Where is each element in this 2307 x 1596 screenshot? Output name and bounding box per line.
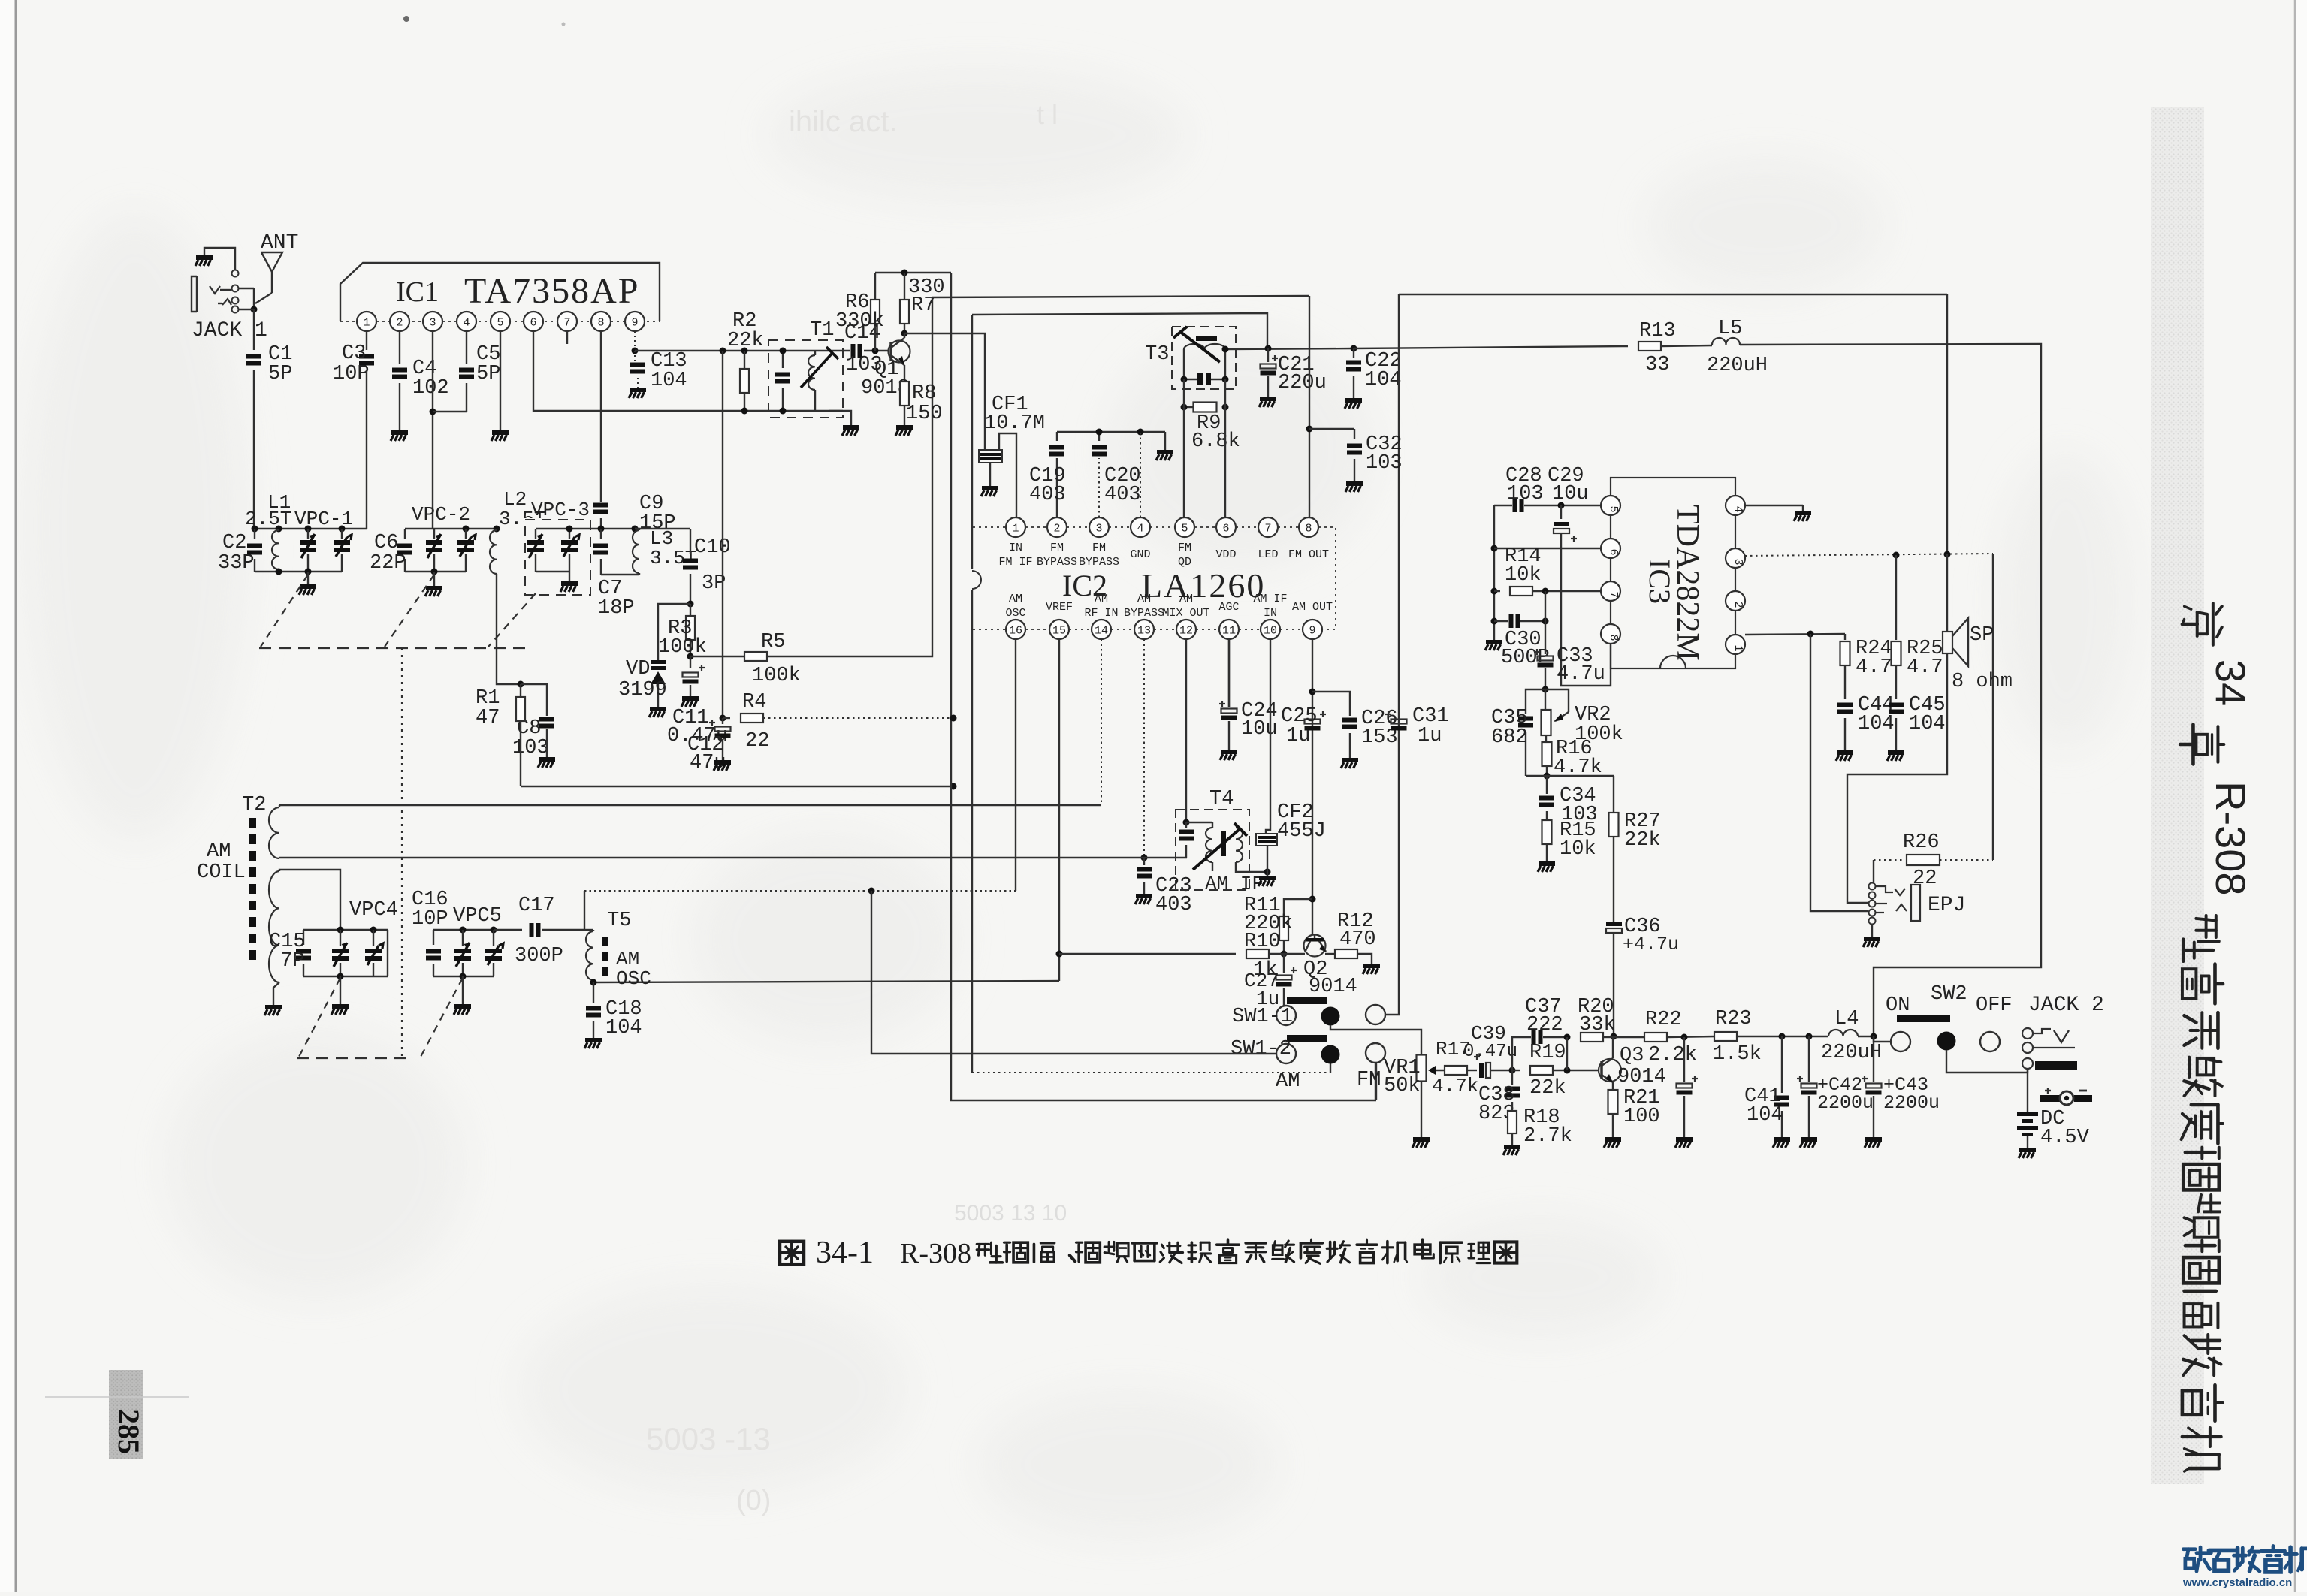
svg-text:VD: VD bbox=[626, 658, 650, 680]
wire junction to VD branch bbox=[658, 604, 690, 660]
svg-text:10.7M: 10.7M bbox=[984, 412, 1045, 435]
IC3 pin 2 bbox=[1726, 591, 1745, 611]
svg-text:7: 7 bbox=[1264, 523, 1271, 536]
svg-text:9: 9 bbox=[1309, 625, 1315, 638]
capacitor C44 104 bbox=[1837, 703, 1853, 707]
resistor R2 bbox=[744, 351, 745, 370]
wire T2 secondary line bbox=[279, 857, 1187, 858]
IC2 pin 9 bbox=[1303, 620, 1322, 639]
capacitor C2 bbox=[254, 529, 255, 539]
ground CF2 bbox=[1259, 876, 1276, 880]
svg-text:5: 5 bbox=[497, 317, 503, 330]
svg-text:t l: t l bbox=[1037, 99, 1058, 130]
jack1 contact V bbox=[210, 286, 220, 294]
IC1 pin 8 bbox=[591, 312, 611, 331]
wire C26 stub bbox=[1312, 692, 1350, 716]
svg-text:C6: C6 bbox=[374, 532, 398, 554]
capacitor C23 403 bbox=[1143, 858, 1145, 865]
wire L2 bottom to R1 bbox=[497, 574, 521, 684]
wire IC2 pin12 riser bbox=[1185, 639, 1187, 822]
wire IC1 pin4 to C5 bbox=[466, 331, 467, 364]
capacitor C22 104 bbox=[1353, 348, 1354, 358]
capacitor C31 1u bbox=[1391, 720, 1407, 724]
node VPC-3 rails bbox=[536, 528, 635, 529]
svg-text:22k: 22k bbox=[727, 330, 764, 352]
transistor Q3 9014 bbox=[1599, 1059, 1621, 1082]
node R6 R7 top rail bbox=[875, 272, 951, 273]
svg-text:4.7k: 4.7k bbox=[1432, 1075, 1478, 1097]
wire C35 stub bbox=[1526, 689, 1545, 714]
svg-text:SW1-2: SW1-2 bbox=[1231, 1038, 1291, 1060]
svg-text:6.8k: 6.8k bbox=[1191, 430, 1240, 453]
svg-text:VPC-1: VPC-1 bbox=[294, 508, 353, 530]
wire C17 to T5 and AM OSC line bbox=[542, 891, 584, 930]
IC1 pin 1 bbox=[357, 312, 376, 331]
svg-text:FM: FM bbox=[1357, 1069, 1381, 1091]
svg-text:7P: 7P bbox=[280, 950, 304, 973]
transistor Q1 9018 bbox=[889, 341, 910, 363]
capacitor C32 103 bbox=[1354, 429, 1355, 439]
capacitor C7 bbox=[600, 529, 602, 539]
ground VD bbox=[650, 707, 666, 711]
svg-text:5: 5 bbox=[1181, 523, 1188, 536]
node VPC4 bottom rail bbox=[303, 976, 388, 977]
capacitor C43 2200u bbox=[1873, 1036, 1874, 1082]
svg-text:R-308: R-308 bbox=[900, 1238, 971, 1269]
IC2 pin 11 bbox=[1219, 620, 1239, 639]
svg-text:4.7: 4.7 bbox=[1907, 656, 1943, 679]
svg-text:14: 14 bbox=[1095, 625, 1108, 638]
capacitor C18 104 bbox=[593, 982, 594, 1003]
ground R18 bbox=[1504, 1145, 1520, 1149]
svg-text:50k: 50k bbox=[1384, 1075, 1421, 1097]
svg-text:AM: AM bbox=[1137, 593, 1151, 605]
IC2 pin 3 bbox=[1089, 517, 1109, 537]
svg-text:220u: 220u bbox=[1278, 372, 1327, 394]
svg-text:3: 3 bbox=[1095, 523, 1102, 536]
capacitor C9 bbox=[593, 503, 608, 508]
svg-text:TA7358AP: TA7358AP bbox=[464, 271, 640, 311]
capacitor C16 10P bbox=[433, 930, 434, 945]
svg-text:2.5T: 2.5T bbox=[245, 508, 291, 530]
wire jack to C1 and L1 tank bbox=[253, 309, 255, 350]
ground jack1 bbox=[196, 255, 213, 260]
node VPC-2 bottom rail bbox=[405, 571, 466, 572]
capacitor C4 bbox=[392, 368, 407, 373]
svg-text:AGC: AGC bbox=[1218, 601, 1239, 614]
svg-text:8: 8 bbox=[1305, 523, 1312, 536]
svg-text:6: 6 bbox=[530, 317, 536, 330]
page left margin edge bbox=[0, 0, 17, 1592]
wire pin3 riser down to R26 bbox=[1992, 554, 1994, 860]
inductor L5 220uH bbox=[1712, 338, 1740, 345]
IC2 LA1260 body outline bbox=[973, 526, 1006, 528]
resistor R21 100 bbox=[1608, 1090, 1618, 1114]
IC2 pin 2 bbox=[1047, 517, 1067, 537]
resistor R12 470 bbox=[1335, 949, 1357, 958]
svg-text:TDA2822M: TDA2822M bbox=[1670, 505, 1705, 661]
T4 tuning arrow bbox=[1193, 829, 1240, 870]
IC2 pin 16 bbox=[1006, 620, 1025, 639]
resistor R6 bbox=[874, 273, 876, 300]
IC2 pin 12 bbox=[1176, 620, 1196, 639]
transformer T3 shield box bbox=[1172, 327, 1236, 389]
svg-text:BYPASS: BYPASS bbox=[1124, 607, 1164, 620]
ground C13 bbox=[630, 388, 646, 392]
svg-text:1u: 1u bbox=[1286, 725, 1310, 747]
wire IC2 pin3 riser bbox=[1098, 458, 1100, 517]
svg-text:AM IF: AM IF bbox=[1205, 873, 1264, 895]
wire IC2 pin4 riser dotted bbox=[1140, 432, 1141, 517]
wire VPC-2 gnd stub bbox=[433, 572, 435, 586]
svg-text:VREF: VREF bbox=[1046, 601, 1073, 614]
capacitor T1 internal bbox=[782, 351, 784, 368]
capacitor C13 bbox=[634, 351, 636, 361]
capacitor C15 7P bbox=[303, 930, 304, 945]
svg-text:7: 7 bbox=[563, 317, 570, 330]
capacitor C17 300P bbox=[530, 923, 534, 937]
wire T2 secondary bottom to ground bbox=[273, 982, 279, 1005]
switch SW2 bbox=[1897, 1015, 1950, 1022]
caption 图 34-1 R-308 schematic title bbox=[780, 1242, 804, 1264]
capacitor C26 153 bbox=[1342, 718, 1357, 723]
svg-text:5003 13 10: 5003 13 10 bbox=[954, 1201, 1067, 1226]
capacitor C27 1u bbox=[1283, 954, 1285, 973]
switch SW1-1 bbox=[1287, 997, 1327, 1004]
svg-text:JACK 2: JACK 2 bbox=[2028, 994, 2104, 1017]
resistor R20 33k bbox=[1581, 1033, 1603, 1042]
wire C9 to VPC-3 rail bbox=[600, 518, 602, 529]
resistor R15 10k bbox=[1542, 820, 1552, 844]
node L1 tank top rail bbox=[255, 528, 367, 529]
wire CF2 gnd stub bbox=[1267, 872, 1268, 876]
wire T3 right to IC2 pin6 bbox=[1224, 379, 1226, 517]
wire T3 left to IC2 pin5 bbox=[1183, 379, 1185, 517]
svg-text:R23: R23 bbox=[1715, 1008, 1752, 1030]
svg-text:18P: 18P bbox=[598, 597, 635, 620]
watermark 矿石收音机 crystalradio bbox=[2183, 1547, 2211, 1571]
capacitor C21 220u bbox=[1267, 348, 1269, 362]
svg-text:C2: C2 bbox=[222, 532, 246, 554]
resistor R3 bbox=[690, 604, 691, 616]
svg-text:R5: R5 bbox=[761, 631, 785, 653]
svg-text:ANT: ANT bbox=[261, 231, 298, 255]
wire IC1 pin6 to T1 bottom rail bbox=[533, 331, 843, 411]
ground C42 bbox=[1801, 1137, 1817, 1142]
capacitor C3 bbox=[359, 354, 374, 359]
speaker SP 8ohm bbox=[1946, 554, 1948, 632]
IC2 pin 4 bbox=[1131, 517, 1150, 537]
svg-text:EPJ: EPJ bbox=[1928, 894, 1965, 917]
svg-text:103: 103 bbox=[512, 737, 549, 759]
IC2 pin 8 bbox=[1299, 517, 1318, 537]
gang coupling dashes AM bbox=[297, 1057, 408, 1059]
wire IC1 pin1 to C3 bbox=[366, 331, 367, 350]
T3 tuning arrow bbox=[1179, 331, 1220, 362]
transformer T1 shield box bbox=[768, 340, 843, 418]
inductor T5 AM OSC bbox=[586, 931, 593, 980]
shield box VPC-3 bbox=[525, 520, 590, 595]
svg-text:103: 103 bbox=[1507, 483, 1544, 505]
svg-text:22: 22 bbox=[1913, 867, 1937, 890]
svg-text:22P: 22P bbox=[370, 552, 406, 575]
wire x1989 column bbox=[1493, 505, 1495, 640]
wire T5 feedback line bbox=[593, 981, 1059, 982]
capacitor C14 bbox=[851, 344, 856, 358]
svg-text:11: 11 bbox=[1222, 625, 1236, 638]
ground IC3 pin4 bbox=[1795, 511, 1811, 515]
wire rail to C10 bbox=[635, 528, 690, 529]
svg-text:L5: L5 bbox=[1718, 318, 1742, 340]
capacitor C6 bbox=[404, 529, 406, 539]
ground CF1 bbox=[982, 486, 998, 490]
svg-text:5003 -13: 5003 -13 bbox=[646, 1421, 771, 1456]
trimmer VPC-1a bbox=[307, 529, 309, 539]
T5 core bbox=[602, 937, 608, 946]
wire pin4 stub to ground bbox=[1745, 505, 1803, 506]
page right margin edge bbox=[2295, 0, 2307, 1592]
gang coupling vertical bbox=[401, 648, 403, 1058]
wire IC1 pin9 to FM line bbox=[634, 331, 636, 351]
svg-text:104: 104 bbox=[651, 370, 687, 392]
wire bus x960 riser bbox=[722, 351, 723, 718]
svg-text:34: 34 bbox=[2207, 659, 2254, 706]
svg-text:VPC-2: VPC-2 bbox=[412, 503, 470, 526]
IC1 pin 7 bbox=[557, 312, 577, 331]
wire JACK2 to battery bbox=[2027, 1069, 2028, 1112]
ground x1989 bbox=[1486, 640, 1502, 644]
IC2 left edge notch bbox=[972, 571, 981, 589]
svg-text:AM IF: AM IF bbox=[1253, 593, 1287, 605]
capacitor C29 10u bbox=[1560, 505, 1562, 519]
capacitor C33 4.7u bbox=[1538, 656, 1554, 661]
ground C40 bbox=[1676, 1137, 1693, 1142]
wire R20 to R22 bbox=[1614, 1036, 1644, 1038]
node VPC-2 tank top rail bbox=[405, 528, 497, 529]
svg-text:455J: 455J bbox=[1277, 820, 1326, 843]
capacitor T4 internal bbox=[1185, 822, 1187, 828]
wire C30 row bbox=[1494, 620, 1508, 622]
IC2 pin 7 bbox=[1258, 517, 1278, 537]
inductor T1 winding bbox=[808, 355, 815, 390]
capacitor C20 403 bbox=[1092, 445, 1107, 450]
node bypass rail bbox=[1057, 431, 1165, 433]
svg-text:FM IF: FM IF bbox=[998, 556, 1032, 569]
svg-text:5: 5 bbox=[1607, 505, 1620, 512]
transistor Q2 9014 bbox=[1304, 935, 1326, 957]
svg-text:R4: R4 bbox=[742, 691, 766, 714]
wire R4 dotted to bus bbox=[763, 717, 953, 719]
wire IC1 pin2 to C4 bbox=[399, 331, 400, 364]
svg-text:AM: AM bbox=[1276, 1070, 1300, 1093]
svg-text:IN: IN bbox=[1009, 542, 1022, 554]
svg-text:OSC: OSC bbox=[616, 967, 651, 990]
svg-text:2.2k: 2.2k bbox=[1648, 1044, 1697, 1067]
wire pin6 row bbox=[1494, 548, 1601, 549]
IC1 pin 6 bbox=[524, 312, 543, 331]
svg-text:103: 103 bbox=[1366, 452, 1403, 475]
svg-text:www.crystalradio.cn: www.crystalradio.cn bbox=[2182, 1576, 2292, 1589]
diode VD 3199 bbox=[651, 660, 666, 664]
resistor R10 1k bbox=[1059, 953, 1236, 955]
wire EPJ sleeve to ground bbox=[1871, 925, 1873, 937]
svg-text:T2: T2 bbox=[242, 794, 266, 816]
trimmer VPC5a bbox=[462, 930, 464, 946]
wire IC2 pin2 riser bbox=[1056, 458, 1058, 517]
ground EPJ bbox=[1864, 937, 1880, 941]
svg-text:COIL: COIL bbox=[197, 861, 246, 884]
svg-text:330k: 330k bbox=[835, 310, 884, 333]
inductor L4 220uH bbox=[1806, 1033, 1813, 1040]
trimmer VPC-3b bbox=[569, 529, 570, 539]
svg-text:SP: SP bbox=[1970, 624, 1994, 647]
resistor R1 bbox=[520, 684, 521, 697]
wire C37 branch bbox=[1512, 1037, 1531, 1070]
svg-text:AM: AM bbox=[1009, 593, 1022, 605]
wire VPC4 gnd stub bbox=[340, 976, 341, 1004]
scan artifact line left bbox=[45, 1396, 189, 1398]
IC2 pin 6 bbox=[1216, 517, 1236, 537]
trimmer VPC5b bbox=[493, 930, 494, 946]
ground VPC-1 bbox=[300, 584, 316, 589]
svg-text:100k: 100k bbox=[752, 665, 801, 687]
svg-text:104: 104 bbox=[1365, 369, 1402, 391]
ground C26 bbox=[1342, 758, 1358, 762]
ground C8 bbox=[539, 757, 555, 762]
svg-text:+4.7u: +4.7u bbox=[1623, 934, 1679, 955]
ground C45 bbox=[1888, 750, 1904, 755]
wire CF1 to IC2 pin1 bbox=[999, 433, 1016, 517]
wire R13 to L5 bbox=[1661, 345, 1712, 346]
ground VPC-2 bbox=[426, 586, 442, 590]
svg-text:10k: 10k bbox=[1505, 564, 1542, 587]
svg-text:ihilc act.: ihilc act. bbox=[789, 105, 898, 138]
capacitor C35 682 bbox=[1518, 717, 1533, 721]
svg-text:4.5V: 4.5V bbox=[2040, 1127, 2090, 1149]
potentiometer VR2 100k bbox=[1545, 689, 1546, 709]
wire IC2 pin10 riser to CF2 bbox=[1266, 639, 1270, 834]
ceramic filter CF1 10.7M bbox=[979, 450, 1002, 463]
svg-text:403: 403 bbox=[1104, 484, 1141, 506]
wire VPC5 gnd stub bbox=[462, 976, 464, 1004]
svg-text:34-1: 34-1 bbox=[816, 1235, 874, 1270]
svg-text:OFF: OFF bbox=[1976, 994, 2013, 1017]
ground R8 bbox=[896, 425, 913, 430]
resistor R9 bbox=[1184, 406, 1194, 408]
capacitor C40 bbox=[1683, 1037, 1685, 1082]
gang coupling dashes FM bbox=[259, 647, 526, 649]
wire T3 rail bbox=[1225, 348, 1354, 349]
ceramic filter CF2 455J bbox=[1256, 834, 1277, 846]
svg-text:5P: 5P bbox=[268, 363, 292, 385]
svg-text:3: 3 bbox=[1732, 558, 1744, 565]
wire VD junction to C12 bbox=[657, 659, 659, 661]
wire pin3 to speaker dotted bbox=[1745, 554, 1993, 556]
T1 tuning arrow bbox=[801, 353, 832, 388]
resistor R25 4.7 bbox=[1895, 555, 1897, 640]
wire T1 right to ground bbox=[829, 411, 851, 425]
wire pin1 row bbox=[1745, 634, 1845, 635]
svg-text:SW1-1: SW1-1 bbox=[1232, 1006, 1293, 1028]
resistor R4 22 bbox=[723, 717, 730, 719]
vertical chapter title 第34章 R-308 ... bbox=[2221, 596, 2223, 598]
svg-text:10P: 10P bbox=[412, 908, 448, 931]
svg-text:470: 470 bbox=[1339, 928, 1376, 951]
svg-text:FM: FM bbox=[1092, 542, 1106, 554]
svg-text:Q3: Q3 bbox=[1620, 1045, 1644, 1067]
svg-text:13: 13 bbox=[1137, 625, 1151, 638]
svg-text:1u: 1u bbox=[1418, 725, 1442, 747]
wire supply bus right top bbox=[1399, 294, 1947, 295]
ground VPC-3 bbox=[561, 581, 578, 586]
node VPC5 rail bbox=[433, 929, 494, 931]
wire C28 row bbox=[1494, 505, 1512, 506]
resistor R17 4.7k bbox=[1445, 1066, 1467, 1075]
svg-text:R19: R19 bbox=[1529, 1042, 1566, 1064]
wire VPC5 to C17 bbox=[494, 929, 522, 931]
IC3 pin 5 bbox=[1601, 496, 1620, 515]
capacitor C25 1u bbox=[1305, 720, 1321, 724]
svg-text:BYPASS: BYPASS bbox=[1037, 556, 1077, 569]
wire R11 stub bbox=[1284, 899, 1312, 916]
resistor R16 4.7k bbox=[1545, 735, 1547, 742]
svg-text:22k: 22k bbox=[1624, 829, 1661, 852]
IC1 pin 3 bbox=[423, 312, 442, 331]
wire IC1 pin8 to C9 bbox=[600, 331, 602, 502]
wire tank gnd stub bbox=[307, 572, 309, 584]
svg-text:9014: 9014 bbox=[1309, 976, 1357, 998]
svg-text:R26: R26 bbox=[1903, 831, 1940, 854]
svg-text:10: 10 bbox=[1264, 625, 1277, 638]
svg-text:QD: QD bbox=[1178, 556, 1191, 569]
svg-text:0.47u: 0.47u bbox=[1463, 1042, 1517, 1062]
wire C5 to junction bbox=[466, 383, 467, 412]
svg-text:MIX OUT: MIX OUT bbox=[1162, 607, 1209, 620]
capacitor C8 bbox=[539, 717, 554, 722]
svg-text:47: 47 bbox=[476, 707, 500, 729]
resistor R14 10k bbox=[1494, 590, 1500, 592]
wire bus FM supply bbox=[932, 296, 1309, 297]
wire T5 bottom bbox=[593, 980, 594, 982]
svg-text:10u: 10u bbox=[1552, 483, 1589, 505]
svg-text:4.7: 4.7 bbox=[1856, 656, 1892, 679]
svg-text:12: 12 bbox=[1179, 625, 1193, 638]
svg-text:BYPASS: BYPASS bbox=[1079, 556, 1119, 569]
ground R15 bbox=[1539, 861, 1555, 866]
ground C23 bbox=[1136, 894, 1152, 898]
svg-text:FM: FM bbox=[1178, 542, 1191, 554]
ground C43 bbox=[1865, 1137, 1882, 1142]
ground C4 bbox=[391, 430, 408, 435]
svg-text:AM OUT: AM OUT bbox=[1292, 601, 1333, 614]
ground C22 bbox=[1345, 398, 1362, 403]
transformer T4 shield box bbox=[1176, 810, 1249, 890]
wire C8 to ground bbox=[546, 729, 548, 757]
wire speaker bottom to EPJ bbox=[1847, 653, 1947, 903]
scan artifact dot top bbox=[403, 16, 409, 22]
svg-text:T1: T1 bbox=[810, 319, 834, 342]
capacitor C30 500P bbox=[1509, 614, 1514, 628]
node VPC5 bottom rail bbox=[433, 976, 494, 977]
svg-text:10u: 10u bbox=[1241, 718, 1278, 741]
wire VDD rail to R13 L5 bbox=[1354, 346, 1628, 348]
svg-text:R7: R7 bbox=[911, 294, 935, 317]
wire bus x1266 bbox=[951, 273, 1376, 1100]
svg-text:222: 222 bbox=[1526, 1014, 1563, 1036]
svg-text:GND: GND bbox=[1130, 548, 1150, 561]
page number 285 block bbox=[109, 1370, 143, 1459]
svg-text:300P: 300P bbox=[515, 945, 563, 967]
